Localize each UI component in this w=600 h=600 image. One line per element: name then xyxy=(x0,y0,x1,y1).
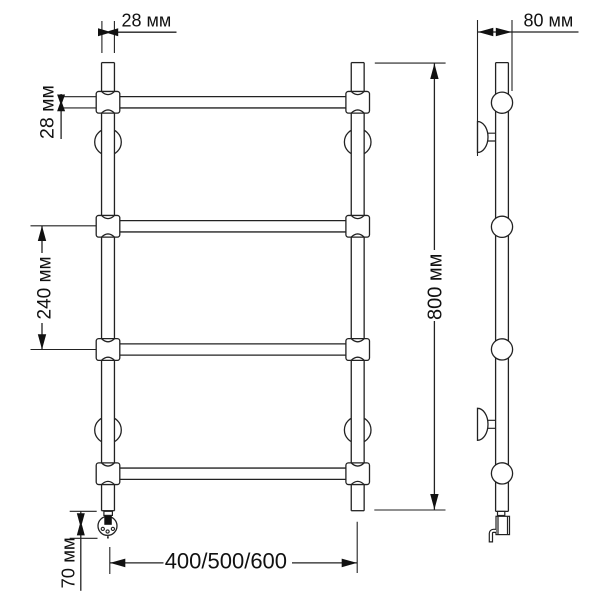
wall-mount circle right-bottom xyxy=(344,417,371,444)
side-view ball joint 1 xyxy=(491,92,512,113)
plug neck xyxy=(104,511,113,515)
svg-text:400/500/600: 400/500/600 xyxy=(165,548,287,573)
svg-text:80 мм: 80 мм xyxy=(524,11,574,31)
joint block left bar4 xyxy=(96,463,120,485)
plug bottom tab xyxy=(107,536,109,538)
joint block right bar3 xyxy=(346,339,370,361)
side-view ball joint 3 xyxy=(491,339,512,360)
wall-mount circle right-top xyxy=(344,129,371,156)
joint block left bar1 xyxy=(96,91,120,113)
svg-text:800 мм: 800 мм xyxy=(425,254,447,320)
plug body circle xyxy=(98,516,117,535)
extension lines at rail centers xyxy=(110,522,357,574)
joint block right bar2 xyxy=(346,215,370,237)
dimension 400/500/600 (bottom, width options) xyxy=(110,522,357,574)
side-view ball joint 4 xyxy=(491,463,512,484)
svg-text:240 мм: 240 мм xyxy=(34,256,55,319)
extension lines at tube edges xyxy=(102,21,115,53)
svg-text:28 мм: 28 мм xyxy=(37,85,59,139)
dimension line xyxy=(60,94,62,139)
horizontal bar 2 xyxy=(114,221,351,232)
dimension 80 мм (side view depth) xyxy=(478,11,579,156)
side-view tube xyxy=(496,63,509,512)
arrow right xyxy=(342,559,357,568)
dimension 28 мм (left, bar diameter) xyxy=(37,85,97,139)
joint blocks: 4 on left rail, 4 on right rail xyxy=(96,91,369,484)
extension lines: wall plane and ball edge xyxy=(478,20,513,156)
dimension line with text gap xyxy=(41,226,43,350)
arrow up xyxy=(38,226,46,241)
arrow up xyxy=(430,64,438,80)
electric plug assembly below left rail xyxy=(98,511,117,538)
side-view wall bracket dome bottom xyxy=(478,408,496,440)
plug pin left xyxy=(101,527,104,530)
joint block left bar3 xyxy=(96,339,120,361)
dimension line xyxy=(80,511,82,591)
joint block right bar4 xyxy=(346,463,370,485)
extension lines at bar centers xyxy=(31,226,97,350)
dimension 240 мм (left, bar spacing) xyxy=(31,226,97,350)
bowtie arrows xyxy=(77,513,85,535)
dimension 800 мм (right, overall height) xyxy=(374,63,446,510)
arrow down xyxy=(430,494,438,510)
bowtie arrows xyxy=(57,95,65,112)
dimension line with text gap xyxy=(433,64,435,510)
svg-text:28 мм: 28 мм xyxy=(122,11,172,31)
side-view wall bracket dome top xyxy=(478,122,496,153)
right rail tube xyxy=(351,63,364,511)
svg-text:70 мм: 70 мм xyxy=(58,537,79,588)
wall-mount circle left-bottom xyxy=(95,417,122,444)
extension lines at rail top and bottom xyxy=(374,63,445,510)
arrow left xyxy=(478,28,493,37)
bowtie arrows xyxy=(98,28,118,36)
left rail tube xyxy=(102,63,115,511)
horizontal bar 1 xyxy=(114,97,351,108)
extension lines at bar edges xyxy=(62,97,97,108)
side-view heater neck xyxy=(498,511,505,515)
horizontal bar 4 xyxy=(114,468,351,479)
arrow right xyxy=(496,28,512,37)
plug pin bottom xyxy=(106,530,109,533)
extension lines at rail bottom and plug bottom xyxy=(70,511,98,538)
dimension line with text gap xyxy=(110,562,357,564)
plug connector black key xyxy=(104,516,112,525)
dimension line tail xyxy=(478,31,579,33)
plug pin right xyxy=(111,527,114,530)
side-view heater housing xyxy=(496,516,510,534)
joint block right bar1 xyxy=(346,91,370,113)
wall-mount circle left-top xyxy=(95,129,122,156)
joint block left bar2 xyxy=(96,215,120,237)
arrow down xyxy=(38,334,46,349)
side-view power cable hook xyxy=(489,529,496,542)
horizontal bar 3 xyxy=(114,344,351,355)
dimension 70 мм (bottom left, plug length) xyxy=(58,511,98,591)
side-view ball joint 2 xyxy=(491,216,512,237)
dimension line tail xyxy=(118,31,177,33)
arrow left xyxy=(110,559,125,568)
dimension 28 мм (top, tube diameter) xyxy=(98,11,177,54)
